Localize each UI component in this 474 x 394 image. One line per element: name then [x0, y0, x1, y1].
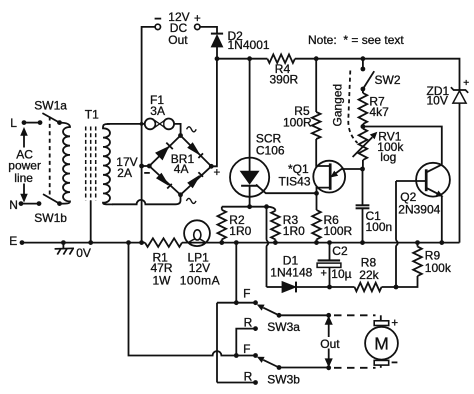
svg-text:E: E — [9, 234, 17, 248]
svg-text:Out: Out — [168, 33, 188, 47]
svg-text:R: R — [244, 315, 253, 329]
svg-text:0V: 0V — [76, 246, 91, 260]
svg-text:390R: 390R — [270, 73, 299, 87]
svg-text:TIS43: TIS43 — [279, 175, 311, 189]
svg-text:100R: 100R — [324, 224, 353, 238]
svg-text:100k: 100k — [425, 261, 452, 275]
svg-text:1N4148: 1N4148 — [270, 265, 312, 279]
svg-text:10V: 10V — [427, 94, 448, 108]
svg-text:line: line — [14, 171, 33, 185]
svg-text:2A: 2A — [117, 166, 132, 180]
svg-text:SW2: SW2 — [375, 73, 401, 87]
svg-text:1R0: 1R0 — [283, 224, 305, 238]
svg-text:T1: T1 — [85, 108, 99, 122]
svg-text:F: F — [243, 286, 250, 300]
svg-text:log: log — [380, 150, 396, 164]
svg-text:+: + — [214, 167, 221, 179]
svg-text:N: N — [9, 198, 18, 212]
svg-text:R: R — [244, 369, 253, 383]
svg-text:L: L — [10, 116, 17, 130]
svg-text:SW3a: SW3a — [267, 320, 300, 334]
svg-text:SW1a: SW1a — [34, 99, 67, 113]
svg-text:Out: Out — [320, 337, 340, 351]
svg-text:C106: C106 — [256, 144, 285, 158]
svg-text:10µ: 10µ — [331, 267, 351, 281]
svg-text:4k7: 4k7 — [369, 105, 389, 119]
svg-text:4A: 4A — [174, 162, 189, 176]
svg-text:SW3b: SW3b — [267, 373, 300, 387]
svg-text:3A: 3A — [150, 104, 165, 118]
svg-text:+: + — [320, 267, 326, 279]
svg-text:Note: * = see text: Note: * = see text — [308, 33, 404, 47]
svg-text:SW1b: SW1b — [34, 211, 67, 225]
svg-text:1R0: 1R0 — [229, 224, 251, 238]
svg-text:+: + — [194, 13, 201, 25]
svg-text:+: + — [391, 318, 398, 330]
svg-text:+: + — [463, 77, 469, 89]
svg-text:1N4001: 1N4001 — [228, 38, 270, 52]
svg-text:power: power — [8, 158, 41, 172]
svg-text:C2: C2 — [332, 244, 348, 258]
svg-text:F: F — [243, 342, 250, 356]
svg-text:2N3904: 2N3904 — [398, 202, 440, 216]
svg-text:100mA: 100mA — [180, 273, 220, 287]
svg-text:Ganged: Ganged — [331, 84, 345, 127]
svg-text:M: M — [374, 334, 389, 354]
svg-text:100R: 100R — [283, 116, 312, 130]
svg-text:1W: 1W — [153, 273, 172, 287]
svg-text:22k: 22k — [359, 268, 379, 282]
svg-text:100n: 100n — [366, 220, 393, 234]
